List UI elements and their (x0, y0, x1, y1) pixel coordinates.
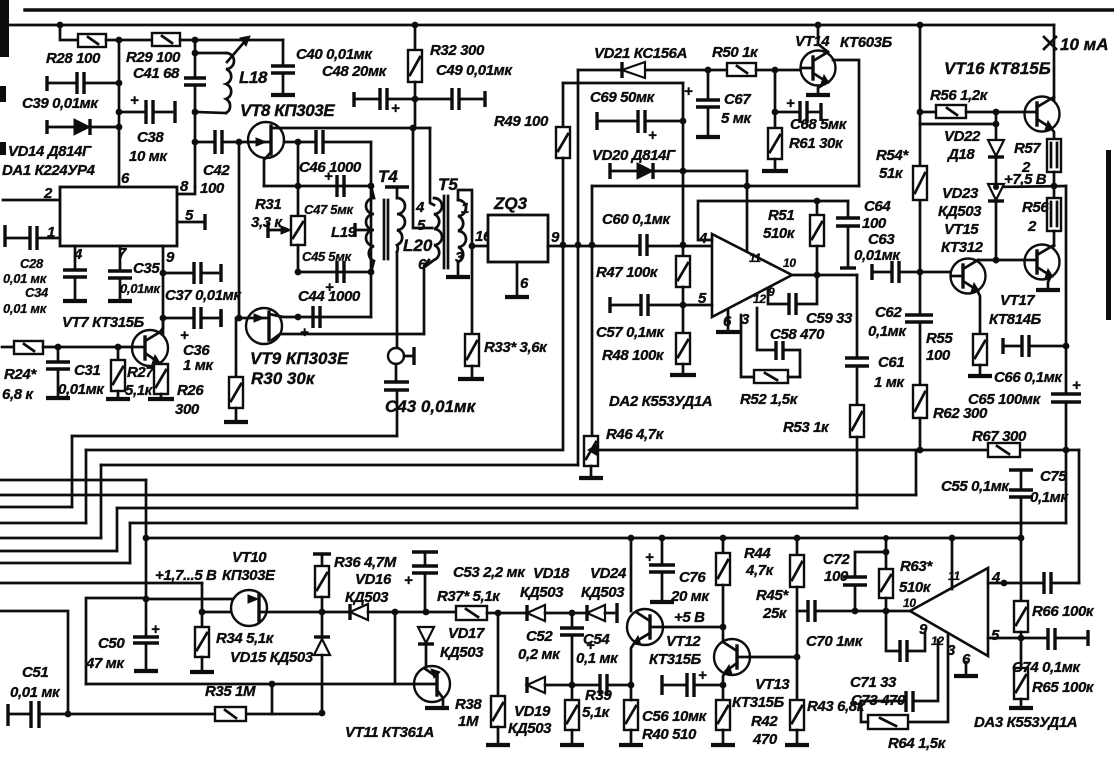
capacitor C47 electrolytic (324, 168, 344, 197)
capacitor C61 (845, 275, 869, 405)
node x886 y611 (883, 608, 890, 615)
ground VT11 (425, 706, 449, 710)
wire pin16 to ZQ3 (472, 245, 488, 248)
svg-text:510к: 510к (763, 225, 796, 242)
wire column x683 (682, 83, 685, 256)
svg-text:20 мк: 20 мк (670, 588, 710, 605)
svg-text:8: 8 (180, 178, 189, 195)
resistor R45 (790, 538, 804, 700)
ground R55 (968, 374, 992, 378)
wire VT13 base row (750, 656, 797, 659)
svg-text:R42: R42 (751, 713, 778, 730)
node x563 y245 (560, 242, 567, 249)
svg-text:DA1 К224УР4: DA1 К224УР4 (2, 162, 96, 179)
capacitor C63 (872, 261, 951, 283)
svg-text:C59 33: C59 33 (806, 310, 853, 327)
svg-text:VT12: VT12 (666, 633, 701, 650)
ground C76 (650, 600, 674, 604)
resistor R39 (565, 685, 579, 743)
svg-text:C54: C54 (583, 631, 610, 648)
svg-text:R61 30к: R61 30к (789, 135, 844, 152)
node +7,5V junction (1051, 183, 1058, 190)
node riser x146 / VT10 gate (143, 596, 150, 603)
resistor R62 (913, 385, 927, 450)
wire x298 drop (297, 142, 300, 186)
svg-text:R31: R31 (255, 196, 281, 213)
svg-text:КД503: КД503 (440, 644, 484, 661)
node gate x239 (236, 139, 243, 146)
wire loop x396 to row684 (272, 612, 395, 684)
resistor R35 (215, 707, 246, 721)
wire x272 drop to row714 (271, 684, 274, 714)
svg-text:9: 9 (166, 249, 175, 266)
svg-text:0,01мк: 0,01мк (58, 381, 105, 398)
svg-text:DA2 К553УД1А: DA2 К553УД1А (609, 393, 712, 410)
capacitor C70 (808, 600, 815, 622)
node x631 y538 (628, 535, 635, 542)
capacitor C73 (906, 691, 913, 712)
capacitor C38 electrolytic (119, 92, 175, 124)
ground R26 (148, 397, 174, 401)
capacitor C28 with pin1 (5, 225, 60, 250)
svg-text:R45*: R45* (756, 587, 789, 604)
wire VD19 row y685 (527, 677, 600, 693)
node x322 y713 (319, 710, 326, 717)
wire R67 row right corner down (1078, 450, 1081, 583)
transistor VT8 FET (248, 122, 284, 158)
capacitor C55 (1009, 470, 1033, 538)
wire bus row y465 (101, 464, 578, 467)
node C39/x119 (116, 80, 123, 87)
svg-text:VT11 КТ361А: VT11 КТ361А (345, 724, 434, 741)
svg-text:0,1 мк: 0,1 мк (576, 650, 619, 667)
svg-text:+: + (300, 324, 309, 341)
ground R34 (190, 670, 214, 674)
node riser x146 / row y538 (143, 535, 150, 542)
wire C69 box top y83 (563, 82, 683, 85)
svg-text:C68 5мк: C68 5мк (790, 116, 848, 133)
node x572 y613 (569, 610, 576, 617)
resistor R56 (920, 105, 1025, 118)
svg-text:+: + (404, 572, 413, 589)
resistor R55 (973, 334, 987, 374)
node top rail / R28 (57, 22, 64, 29)
svg-text:300: 300 (175, 401, 200, 418)
svg-text:VT17: VT17 (1000, 292, 1035, 309)
svg-text:R47 100к: R47 100к (596, 264, 659, 281)
svg-text:C49 0,01мк: C49 0,01мк (436, 62, 513, 79)
ground C40 (271, 93, 295, 97)
bus staircase: line 3 (0, 465, 578, 538)
svg-text:5: 5 (417, 217, 426, 234)
diode VD20 (610, 163, 747, 179)
transistor VT11 (414, 666, 450, 702)
ground R46 (579, 476, 603, 480)
bus staircase: line 7 (0, 523, 1066, 563)
svg-text:R63*: R63* (900, 558, 933, 575)
svg-text:0,01 мк: 0,01 мк (3, 301, 48, 316)
node x817 y275 (814, 272, 821, 279)
node x855 y611 via C72 (852, 608, 859, 615)
wire bus riser x101 (100, 465, 103, 538)
wire column x195 upper (194, 40, 197, 78)
wire VT12 emitter drop (631, 642, 635, 685)
node x797 y657 (794, 654, 801, 661)
svg-text:R65 100к: R65 100к (1032, 679, 1095, 696)
svg-text:C42: C42 (203, 162, 230, 179)
wire column x578 (577, 70, 580, 245)
resistor R44 (716, 538, 730, 640)
capacitor C76 electrolytic (645, 538, 675, 600)
svg-text:VT14: VT14 (795, 33, 830, 50)
node C38/x119 (116, 109, 123, 116)
wire base VT17 (996, 259, 1025, 262)
svg-text:0,01 мк: 0,01 мк (10, 684, 61, 701)
wire bus left row y538 (0, 537, 101, 540)
ground R40 (619, 743, 643, 747)
svg-text:C31: C31 (74, 362, 100, 379)
node x662 y538 (659, 535, 666, 542)
node x683 y121 (680, 118, 687, 125)
svg-text:1 мк: 1 мк (183, 357, 214, 374)
capacitor C75 (1044, 572, 1051, 594)
capacitor C74 (1048, 628, 1088, 650)
jack connector X (388, 347, 414, 365)
svg-text:R24*: R24* (4, 366, 37, 383)
svg-text:100: 100 (862, 215, 887, 232)
ground R27 (106, 397, 130, 401)
resistor R53 (850, 405, 864, 508)
ground T5 winding (446, 275, 470, 279)
wire L18 top tap (195, 52, 226, 55)
resistor R27 (111, 347, 125, 397)
svg-text:R49 100: R49 100 (494, 113, 549, 130)
svg-text:C52: C52 (526, 628, 553, 645)
wire x86 loop to row684 (86, 598, 146, 684)
ground R43 (785, 743, 809, 747)
node x708 y70 (705, 67, 712, 74)
node x498 hmm R38 drop (495, 610, 502, 617)
svg-text:10: 10 (903, 596, 916, 610)
resistor R30 (229, 318, 243, 420)
svg-text:5,1к: 5,1к (582, 704, 611, 721)
svg-text:R29 100: R29 100 (126, 49, 181, 66)
capacitor C62 (905, 272, 933, 385)
svg-text:C63: C63 (868, 231, 895, 248)
node x298 y272 (295, 269, 302, 276)
node x1066 y346 (1063, 343, 1070, 350)
node x886 y538 (883, 535, 889, 541)
wire bus riser x146 down to C50 (145, 480, 148, 637)
svg-text:C55 0,1мк: C55 0,1мк (941, 478, 1010, 495)
capacitor C41 in column x195 (184, 78, 206, 85)
svg-text:3,3 к: 3,3 к (251, 214, 283, 231)
transistor VT13 (714, 639, 750, 675)
pin 8 wire (177, 187, 195, 194)
capacitor C72 (843, 552, 886, 611)
wire VT13 emitter drop (723, 671, 726, 700)
svg-text:10: 10 (783, 256, 796, 270)
svg-text:C65 100мк: C65 100мк (968, 391, 1042, 408)
node C36/x163 (160, 315, 167, 322)
resistor R40 (624, 685, 638, 743)
wire VT9 source row y334 (272, 334, 424, 340)
wire ZQ3 pin9 (548, 245, 640, 248)
resistor R38 (491, 613, 505, 743)
resistor R47 (676, 256, 690, 305)
resistor R50 (708, 63, 801, 76)
svg-text:VD23: VD23 (942, 185, 979, 202)
node x1066 y450 (1063, 447, 1070, 454)
wire VT15 emitter to R55 (977, 290, 980, 334)
svg-text:C34: C34 (25, 285, 49, 300)
node x920 y272 (917, 269, 924, 276)
resistor R48 (676, 305, 690, 373)
capacitor C51 (8, 701, 39, 728)
svg-text:R32 300: R32 300 (430, 42, 485, 59)
svg-text:КД503: КД503 (581, 584, 625, 601)
wire R51 top loop y201 (698, 201, 848, 240)
resistor R28 (78, 34, 106, 47)
svg-text:R38: R38 (455, 696, 482, 713)
wire bus row y450 left part (86, 449, 561, 452)
node top rail / VT14 (815, 22, 822, 29)
svg-text:C74 0,1мк: C74 0,1мк (1012, 659, 1081, 676)
svg-text:4,7к: 4,7к (745, 562, 775, 579)
wire bus riser x117 (116, 508, 119, 551)
capacitor C59 (768, 275, 817, 315)
transistor VT9 FET (239, 308, 298, 344)
svg-text:L19: L19 (331, 224, 357, 241)
svg-text:0,01 мк: 0,01 мк (3, 271, 48, 286)
svg-text:R28 100: R28 100 (46, 50, 101, 67)
transformer T4 core (384, 200, 388, 259)
wire bus left row y507 (0, 506, 72, 509)
svg-text:R34 5,1к: R34 5,1к (216, 630, 275, 647)
svg-text:100: 100 (200, 180, 225, 197)
resistor R24 (2, 341, 132, 354)
resistor R67 (988, 443, 1020, 457)
node x272 y684 (269, 681, 276, 688)
svg-text:VD21 КС156А: VD21 КС156А (594, 45, 687, 62)
svg-text:12: 12 (753, 292, 766, 306)
wire R28 to R29 (106, 39, 152, 42)
svg-text:+: + (324, 168, 333, 185)
wire bus left row y523 (0, 522, 86, 525)
resistor R64 (861, 701, 908, 729)
svg-text:VT16 КТ815Б: VT16 КТ815Б (944, 59, 1051, 78)
meter mark x10mA (1044, 37, 1056, 49)
resistor R29 (152, 33, 180, 46)
wire VT8 right row y142 (284, 141, 316, 144)
resistor R43 (790, 700, 804, 743)
svg-text:C62: C62 (875, 304, 902, 321)
wire VT10 gate row (146, 598, 250, 601)
node x683 y245 (680, 242, 687, 249)
ground C50 (134, 669, 158, 673)
node x415 y99 (412, 96, 419, 103)
svg-text:C39 0,01мк: C39 0,01мк (22, 95, 99, 112)
node x298 y142 (295, 139, 302, 146)
transistor VT7 (132, 330, 168, 366)
svg-text:0,01мк: 0,01мк (854, 247, 901, 264)
svg-text:КТ315Б: КТ315Б (649, 651, 702, 668)
resistor R37 (456, 606, 527, 620)
capacitor C66 (1003, 335, 1066, 357)
svg-text:КТ603Б: КТ603Б (840, 34, 893, 51)
svg-text:R44: R44 (744, 545, 771, 562)
bus staircase: line 2 (0, 450, 561, 523)
transformer T4 right winding (385, 187, 409, 347)
svg-text:C72: C72 (823, 551, 850, 568)
svg-text:+1,7...5 В: +1,7...5 В (155, 567, 217, 584)
wire row y684 (86, 683, 272, 686)
svg-text:Д18: Д18 (946, 146, 975, 163)
capacitor C64 column (836, 201, 860, 268)
svg-text:R48 100к: R48 100к (602, 347, 665, 364)
svg-text:Т5: Т5 (438, 175, 458, 194)
svg-text:0,1мк: 0,1мк (868, 323, 907, 340)
resistor R56-2 (1047, 198, 1061, 246)
node x298 y317 (295, 314, 302, 321)
node VD23 top junction (993, 184, 999, 190)
node x68 y714 (65, 711, 72, 718)
crystal ZQ3 box (488, 215, 548, 262)
svg-text:КД503: КД503 (508, 720, 552, 737)
node x118 y347 (115, 344, 122, 351)
capacitor C71 (900, 632, 925, 662)
svg-text:R55: R55 (926, 330, 953, 347)
wire x775 column (774, 70, 777, 128)
wire pin11 column x747 (746, 171, 749, 258)
svg-text:DA3 К553УД1А: DA3 К553УД1А (974, 714, 1077, 731)
wire VT7 collector up (160, 318, 163, 332)
node x886 y552 (883, 549, 890, 556)
node x683 y305 (680, 302, 687, 309)
svg-text:2: 2 (43, 185, 53, 202)
node top rail / R54 column (917, 22, 924, 29)
svg-text:VT7 КТ315Б: VT7 КТ315Б (62, 314, 145, 331)
node x195 y40 (192, 37, 199, 44)
svg-text:C47 5мк: C47 5мк (304, 202, 355, 217)
svg-text:R56: R56 (1022, 199, 1049, 216)
svg-text:C53 2,2 мк: C53 2,2 мк (453, 564, 526, 581)
svg-text:КП303Е: КП303Е (222, 567, 276, 584)
svg-text:C43 0,01мк: C43 0,01мк (385, 397, 477, 416)
node x1021 y638 (1018, 635, 1025, 642)
wire bus row y436 (72, 435, 397, 438)
transistor VT10 FET (231, 590, 267, 626)
transistor VT15 (951, 259, 986, 294)
svg-text:КТ315Б: КТ315Б (732, 694, 785, 711)
resistor R49 (556, 83, 570, 245)
capacitor C37 (163, 262, 221, 284)
wire R34 column from row583 (201, 583, 204, 612)
wire column x195 lower (194, 85, 197, 187)
wire C44 row y317 (298, 316, 371, 319)
node x195 y112 (192, 109, 199, 116)
svg-text:1: 1 (461, 200, 469, 217)
wire bus riser x86 (85, 450, 88, 523)
diode VD23 (988, 184, 1004, 262)
svg-text:0,01мк: 0,01мк (120, 281, 161, 296)
resistor R31 trimmer (268, 186, 305, 272)
svg-text:R37* 5,1к: R37* 5,1к (437, 588, 501, 605)
svg-text:VD19: VD19 (514, 703, 551, 720)
wire row y186 (264, 185, 371, 188)
capacitor C40 (271, 40, 295, 93)
node x395 y612 (392, 609, 399, 616)
node x322 y612 (319, 609, 326, 616)
node x472 y246 (469, 243, 476, 250)
svg-text:R56 1,2к: R56 1,2к (930, 87, 989, 104)
resistor R33 (465, 246, 479, 377)
node x996 y112 (993, 109, 1000, 116)
wire x1066 column (1065, 186, 1068, 394)
wire bus left row y551 (0, 550, 117, 553)
node VT9 gate (236, 315, 243, 322)
svg-text:C45 5мк: C45 5мк (302, 249, 353, 264)
svg-text:+: + (698, 667, 707, 684)
ground ZQ3 (505, 295, 529, 299)
svg-text:Т4: Т4 (378, 167, 398, 186)
wire row y612 left piece (202, 611, 231, 614)
capacitor C49 (415, 88, 485, 110)
svg-text:R36 4,7М: R36 4,7М (334, 554, 397, 571)
wire y124 stub (920, 123, 996, 126)
svg-text:VD22: VD22 (944, 128, 981, 145)
svg-text:10 мк: 10 мк (129, 148, 168, 165)
resistor R66 (1014, 538, 1028, 638)
svg-text:+: + (648, 127, 657, 144)
diode VD24 (587, 603, 617, 623)
diode VD22 (988, 112, 1004, 184)
svg-text:25к: 25к (762, 605, 788, 622)
svg-text:5: 5 (185, 207, 194, 224)
sheet border top (0, 0, 1114, 320)
capacitor C31 (46, 347, 70, 396)
capacitor C57 (610, 294, 648, 316)
svg-text:R30 30к: R30 30к (251, 369, 316, 388)
diode VD18 (527, 605, 587, 621)
capacitor C68 electrolytic (775, 95, 821, 123)
svg-text:+: + (151, 621, 160, 638)
node x58 y347 (55, 344, 62, 351)
wire x886 from row538 (885, 538, 888, 569)
wire top rail drop to R28 (60, 25, 78, 40)
potentiometer R46 (584, 436, 1079, 476)
wire VT14 emitter ground (818, 82, 827, 93)
capacitor C60 (640, 234, 647, 256)
svg-text:R39: R39 (585, 687, 612, 704)
wire C60 box left x592 (591, 186, 594, 436)
capacitor C53 (404, 552, 438, 612)
node x775 y70 (772, 67, 779, 74)
transformer T5 right winding (458, 190, 472, 275)
svg-text:+: + (1072, 377, 1081, 394)
svg-text:КТ312: КТ312 (941, 239, 984, 256)
svg-text:R54*: R54* (876, 147, 909, 164)
node x920 y112 (917, 109, 924, 116)
svg-text:R64 1,5к: R64 1,5к (888, 735, 947, 752)
op-amp DA3 (910, 568, 988, 656)
svg-text:6: 6 (121, 170, 130, 187)
resistor R51 (810, 201, 824, 275)
node x775 y112 (772, 109, 779, 116)
node C37/x163 (160, 270, 167, 277)
svg-text:2: 2 (1027, 218, 1037, 235)
wire VT10 source row y612 (259, 611, 350, 614)
